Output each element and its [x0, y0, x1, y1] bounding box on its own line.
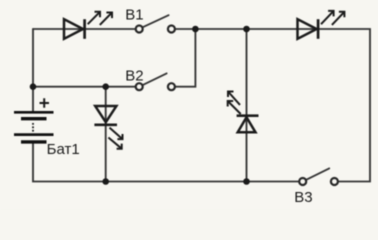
svg-text:B1: B1 [125, 7, 143, 24]
svg-text:B2: B2 [125, 67, 143, 84]
svg-text:Бат1: Бат1 [47, 141, 80, 158]
svg-text:B3: B3 [294, 189, 312, 206]
